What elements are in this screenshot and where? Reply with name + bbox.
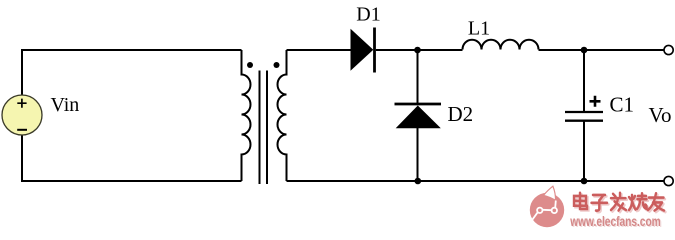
capacitor C1 plus sign (590, 96, 601, 107)
source Vin (2, 95, 42, 135)
watermark logo circle (530, 186, 564, 227)
inductor L1 (463, 40, 539, 50)
transformer T1 primary winding (242, 50, 251, 181)
watermark text fa (611, 193, 627, 212)
output terminal top (664, 45, 673, 54)
watermark text zi (592, 195, 609, 212)
node A junction dot (414, 47, 421, 54)
source plus terminal (17, 99, 26, 108)
transformer T1 secondary winding (278, 50, 287, 181)
output terminal bottom (664, 176, 673, 185)
watermark text shao (629, 193, 648, 211)
wire D2 to bottom rail (417, 128, 419, 181)
svg-text:www.elecfans.com: www.elecfans.com (569, 214, 660, 229)
polarity dot primary (247, 62, 253, 68)
wire primary top: source to transformer (22, 50, 242, 96)
wire node A down to D2 (417, 50, 419, 103)
wire L1 to node B (539, 49, 585, 51)
wire node B down to C1 (583, 50, 585, 111)
wire C1 to bottom rail (583, 122, 585, 182)
node C junction dot (D2 bottom) (415, 178, 422, 185)
wire secondary bottom rail (287, 180, 665, 182)
wire node A to L1 (418, 49, 463, 51)
wire node B to output terminal (584, 49, 664, 51)
node D junction dot (C1 bottom) (581, 178, 588, 185)
svg-text:Vo: Vo (649, 103, 672, 127)
svg-text:L1: L1 (468, 18, 490, 40)
polarity dot secondary (274, 62, 280, 68)
wire secondary top: transformer to D1 (287, 49, 351, 51)
diode D1 (351, 29, 374, 71)
transformer core (260, 71, 268, 185)
watermark text you (friend) (648, 193, 665, 212)
diode D2 (395, 103, 442, 106)
capacitor C1 (565, 111, 603, 113)
svg-text:D1: D1 (356, 4, 380, 26)
wire D1 to node A (376, 49, 418, 51)
svg-text:D2: D2 (448, 102, 474, 126)
svg-text:C1: C1 (610, 93, 635, 117)
source minus terminal (17, 129, 27, 131)
node B junction dot (581, 47, 588, 54)
svg-text:Vin: Vin (51, 94, 80, 116)
wire primary bottom: transformer to source (22, 134, 242, 181)
watermark text dian (electron) (574, 193, 665, 212)
